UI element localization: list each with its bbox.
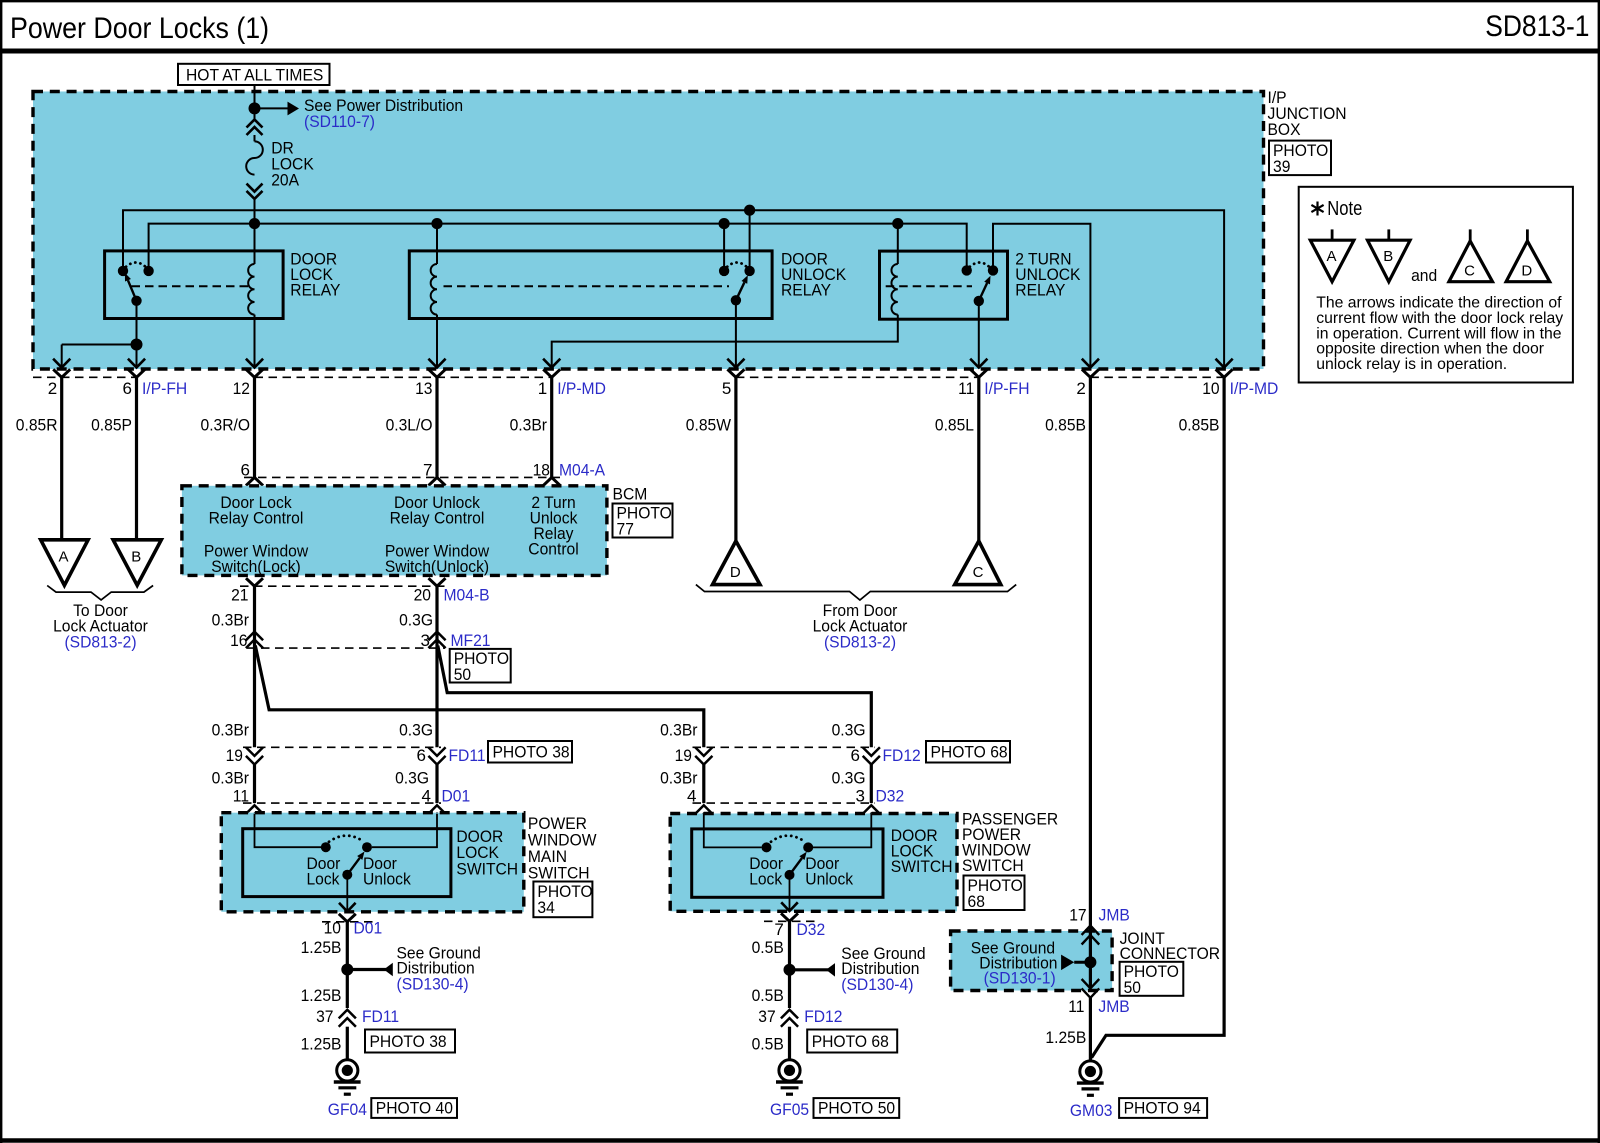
ground GF04 symbol — [337, 1060, 358, 1081]
wire 0.3Br: MF21 16 down to FD11 19 — [253, 648, 256, 747]
passenger switch common wire out — [789, 875, 791, 910]
POWER WINDOW MAIN SWITCH box — [221, 813, 524, 912]
K1 switch common contact — [131, 296, 141, 306]
svg-text:3: 3 — [421, 631, 430, 650]
svg-text:A: A — [1326, 248, 1336, 265]
brace: To Door Lock Actuator — [47, 586, 153, 600]
wire 0.3G: branch MF21 3 to passenger FD12 6 — [438, 646, 872, 748]
wire: battery feed from HOT AT ALL TIMES into fuse node — [254, 85, 256, 108]
wire: bus B2 (lower horizontal feed) — [149, 224, 967, 271]
passenger switch riser from pin 3 — [813, 814, 871, 848]
svg-text:11: 11 — [1068, 997, 1084, 1016]
note triangle A — [1331, 229, 1334, 241]
svg-text:RELAY: RELAY — [290, 281, 340, 300]
ground GF05 symbol — [779, 1060, 800, 1081]
svg-text:RELAY: RELAY — [1015, 281, 1065, 300]
svg-text:0.3G: 0.3G — [832, 721, 866, 740]
M04-B pin 21 — [246, 578, 263, 586]
passenger switch lock contact — [762, 842, 772, 852]
svg-text:SWITCH: SWITCH — [891, 857, 953, 876]
svg-text:6: 6 — [123, 379, 132, 398]
svg-text:(SD813-2): (SD813-2) — [824, 633, 896, 652]
svg-text:6: 6 — [241, 461, 250, 480]
driver switch lock contact — [321, 842, 331, 852]
connector FD12 pin 37 — [781, 1010, 798, 1019]
svg-text:18: 18 — [533, 461, 550, 480]
svg-text:D32: D32 — [876, 787, 905, 806]
svg-text:(SD110-7): (SD110-7) — [304, 112, 375, 131]
fuse DR LOCK 20A — [246, 141, 263, 174]
svg-text:I/P-FH: I/P-FH — [142, 379, 187, 398]
I/P box pin 13 — [428, 359, 445, 368]
svg-text:FD12: FD12 — [804, 1007, 842, 1026]
driver switch arm — [347, 858, 359, 875]
svg-text:5: 5 — [722, 379, 731, 398]
svg-text:JMB: JMB — [1098, 997, 1129, 1016]
MF21 pin 3 — [428, 632, 445, 641]
svg-text:Unlock: Unlock — [363, 870, 411, 889]
svg-text:10: 10 — [1202, 379, 1219, 398]
BCM component box — [182, 486, 607, 576]
wire: fuse output down to bus B2 — [254, 199, 256, 224]
connector M04-A dashed line — [244, 476, 560, 478]
branch to See Ground Distribution (passenger) — [790, 968, 829, 971]
K2 internal dashed link — [444, 285, 730, 287]
svg-text:SD813-1: SD813-1 — [1485, 10, 1589, 43]
triangle D (current direction, from door lock actuator) — [713, 541, 761, 585]
wire 0.3G: MF21 3 down to FD11 6 — [435, 648, 438, 747]
driver switch common wire out — [346, 875, 348, 911]
relay K2: DOOR UNLOCK RELAY box — [409, 251, 772, 319]
I/P box pin 10 connector I/P-MD — [1216, 359, 1233, 368]
svg-text:37: 37 — [316, 1007, 333, 1026]
D32 pin 4 — [695, 805, 712, 814]
connector D01 dashed line — [243, 802, 441, 804]
driver switch dotted arc — [329, 836, 364, 842]
K1 switch arm — [128, 280, 137, 301]
K3 switch left contact — [962, 265, 972, 275]
branch to See Ground Distribution (driver) — [347, 968, 386, 971]
svg-text:4: 4 — [687, 787, 696, 806]
svg-text:6: 6 — [851, 746, 860, 765]
wire: branch to See Power Distribution — [255, 107, 289, 109]
svg-text:16: 16 — [230, 631, 247, 650]
M04-A pin 6 — [246, 477, 263, 485]
svg-text:C: C — [1464, 263, 1475, 280]
wire segment to door switch connector — [702, 765, 705, 804]
svg-text:20: 20 — [414, 586, 431, 605]
svg-text:17: 17 — [1069, 906, 1086, 925]
wire 0.85B: pin 2 to JMB joint connector — [1089, 377, 1092, 926]
note triangle D — [1526, 229, 1529, 242]
connector line: I/P-MD pins 12,13,1 (dashed) — [255, 376, 552, 378]
photo ref box: PHOTO 40 — [371, 1098, 457, 1118]
connector line: I/P-FH pins 5,11 (dashed) — [736, 376, 979, 378]
I/P box pin 12 — [246, 359, 263, 368]
svg-text:PHOTO 94: PHOTO 94 — [1124, 1099, 1201, 1118]
I/P box pin 5 — [727, 359, 744, 368]
svg-text:D: D — [730, 564, 741, 581]
svg-text:50: 50 — [454, 665, 471, 684]
svg-text:B: B — [1383, 248, 1393, 265]
K1 dotted throw arc — [126, 263, 146, 267]
svg-text:10: 10 — [324, 919, 341, 938]
wire: bus B1 (upper horizontal feed) — [123, 210, 1224, 366]
photo ref box: PHOTO 68 — [926, 741, 1010, 763]
svg-text:and: and — [1411, 266, 1437, 285]
K1 switch left contact — [118, 266, 128, 276]
svg-text:RELAY: RELAY — [781, 281, 831, 300]
svg-text:(SD130-1): (SD130-1) — [984, 969, 1056, 988]
connector D32 pin 7 — [781, 913, 798, 921]
junction: fuse to bus B2 — [249, 218, 260, 229]
connector FD12 dashed line — [693, 746, 876, 748]
junction: unlock relay left contact on bus B2 — [719, 218, 730, 229]
svg-text:6: 6 — [417, 746, 426, 765]
junction: passenger ground distribution — [784, 964, 796, 976]
svg-text:I/P-FH: I/P-FH — [984, 379, 1029, 398]
driver switch unlock contact — [362, 842, 372, 852]
photo ref box: PHOTO 77 — [613, 504, 673, 538]
passenger switch dotted arc — [771, 836, 805, 842]
PASSENGER POWER WINDOW SWITCH box — [670, 814, 957, 912]
svg-text:D01: D01 — [442, 787, 471, 806]
K2 switch left contact — [719, 266, 729, 276]
K1 internal dashed link to coil — [132, 285, 251, 287]
svg-text:unlock relay is in operation.: unlock relay is in operation. — [1316, 356, 1507, 373]
node: power distribution junction — [249, 102, 261, 114]
svg-text:39: 39 — [1273, 157, 1290, 176]
off-page arrow: See Power Distribution — [288, 102, 300, 116]
K3 coil — [897, 224, 899, 264]
wire 0.85P: pin 6 to triangle B — [135, 377, 138, 540]
svg-text:77: 77 — [617, 520, 634, 539]
I/P box pin 6 connector I/P-FH — [128, 359, 145, 368]
junction: 2-turn relay coil on bus B2 — [892, 218, 903, 229]
svg-text:B: B — [131, 549, 141, 566]
photo ref box: PHOTO 94 — [1119, 1098, 1207, 1118]
svg-text:I/P-MD: I/P-MD — [1230, 379, 1279, 398]
triangle C — [955, 541, 1001, 585]
triangle B — [113, 540, 161, 586]
junction dot in joint connector — [1084, 956, 1096, 968]
svg-text:C: C — [973, 564, 984, 581]
svg-text:11: 11 — [233, 787, 249, 806]
svg-text:1.25B: 1.25B — [1045, 1028, 1086, 1047]
svg-text:GF05: GF05 — [770, 1100, 809, 1119]
D01 pin 11 — [246, 805, 263, 814]
svg-text:Note: Note — [1327, 198, 1362, 220]
note title — [1311, 202, 1323, 216]
svg-text:GF04: GF04 — [328, 1100, 367, 1119]
svg-text:PHOTO 38: PHOTO 38 — [493, 743, 570, 762]
joint connector branch arrow — [1061, 955, 1074, 971]
svg-text:FD11: FD11 — [449, 746, 486, 765]
FD12 pin 19 — [695, 747, 712, 756]
photo ref box: PHOTO 34 — [533, 882, 592, 918]
wire segment to door switch connector — [870, 765, 873, 804]
relay K1: DOOR LOCK RELAY box — [105, 251, 284, 319]
svg-text:0.85R: 0.85R — [16, 416, 58, 435]
svg-text:0.3G: 0.3G — [832, 769, 866, 788]
K2 contact risers — [723, 224, 725, 271]
svg-text:19: 19 — [675, 746, 692, 765]
svg-text:2: 2 — [48, 379, 57, 398]
svg-text:1.25B: 1.25B — [301, 938, 342, 957]
svg-text:Unlock: Unlock — [805, 870, 853, 889]
svg-text:0.5B: 0.5B — [752, 938, 784, 957]
svg-text:PHOTO 40: PHOTO 40 — [376, 1099, 453, 1118]
wire 0.5B: D32 7 to ground junction — [788, 921, 791, 1008]
svg-text:FD11: FD11 — [362, 1007, 399, 1026]
wire: K3 coil out to pin 1 column — [552, 315, 898, 367]
I/P box pin 1 connector I/P-MD — [543, 359, 560, 368]
MF21 pin 16 — [246, 632, 263, 641]
connector chevrons above fuse — [254, 108, 256, 120]
K3 internal dashed link — [886, 285, 972, 287]
svg-text:0.5B: 0.5B — [752, 986, 784, 1005]
K3 switch common contact — [974, 296, 984, 306]
svg-text:1: 1 — [538, 379, 547, 398]
wire 0.3Br: M04-B 21 to MF21 16 — [253, 586, 256, 648]
svg-text:0.85B: 0.85B — [1179, 416, 1220, 435]
connector line: I/P-FH pins 2,6 (dashed) — [33, 376, 137, 378]
svg-text:2: 2 — [1076, 379, 1085, 398]
connector JMB pin 11 — [1082, 979, 1100, 988]
K2 coil — [436, 224, 438, 264]
svg-text:Power Door Locks (1): Power Door Locks (1) — [10, 12, 269, 45]
junction: unlock relay coil on bus B2 — [431, 218, 442, 229]
photo ref box: PHOTO 68 — [964, 876, 1025, 911]
svg-text:0.3Br: 0.3Br — [212, 611, 250, 630]
wire 0.5B to ground GF05 — [788, 1027, 791, 1061]
wire: K3 common down to pin 11 — [978, 301, 980, 367]
passenger switch common contact — [785, 870, 795, 880]
svg-text:12: 12 — [233, 379, 250, 398]
svg-text:Relay Control: Relay Control — [390, 509, 485, 528]
I/P box pin 11 connector I/P-FH — [970, 359, 987, 368]
wire 0.3Br: pin 1 to BCM pin 18 — [550, 377, 553, 477]
K3 dotted throw arc — [970, 263, 989, 267]
svg-text:PHOTO 38: PHOTO 38 — [370, 1032, 447, 1051]
connector D32 dashed line — [693, 802, 876, 804]
passenger switch riser from pin 4 — [704, 814, 762, 848]
svg-text:0.3Br: 0.3Br — [660, 721, 698, 740]
brace: From Door Lock Actuator — [696, 585, 1016, 600]
wire segment to door switch connector — [253, 765, 256, 804]
wire 0.3G: M04-B 20 to MF21 3 — [435, 586, 438, 648]
svg-text:A: A — [58, 549, 68, 566]
D32 pin 3 — [863, 805, 880, 814]
wire 0.85W: pin 5 to triangle D — [734, 377, 737, 541]
wire 0.85R: pin 2 to triangle A — [60, 377, 63, 540]
svg-text:Lock: Lock — [749, 870, 782, 889]
wire segment to door switch connector — [435, 765, 438, 804]
connector FD11 pin 37 — [339, 1010, 356, 1019]
svg-text:Lock: Lock — [307, 870, 340, 889]
svg-text:CONNECTOR: CONNECTOR — [1120, 944, 1221, 963]
svg-text:D32: D32 — [797, 920, 826, 939]
svg-text:0.3Br: 0.3Br — [212, 721, 250, 740]
wire: K3 right contact to pin 2 column — [993, 224, 1090, 367]
note triangle C — [1469, 229, 1472, 242]
photo ref box: PHOTO 50 — [1120, 962, 1184, 996]
svg-text:HOT AT ALL TIMES: HOT AT ALL TIMES — [186, 66, 323, 85]
svg-text:7: 7 — [423, 461, 432, 480]
svg-text:34: 34 — [537, 898, 554, 917]
svg-text:0.5B: 0.5B — [752, 1035, 784, 1054]
I/P box pin 2 — [1082, 359, 1099, 368]
wire 0.3Br: branch MF21 16 to passenger FD12 19 — [255, 646, 704, 748]
M04-B pin 20 — [429, 578, 446, 586]
svg-text:(SD130-4): (SD130-4) — [841, 975, 913, 994]
FD11 pin 19 — [246, 747, 263, 756]
svg-text:Switch(Unlock): Switch(Unlock) — [385, 557, 489, 576]
svg-text:7: 7 — [774, 920, 783, 939]
photo ref box: PHOTO 50 — [450, 649, 511, 683]
driver switch riser from pin 4 — [372, 814, 437, 848]
photo ref box: PHOTO 38 — [365, 1030, 455, 1053]
svg-text:GM03: GM03 — [1070, 1101, 1113, 1120]
K3 switch right contact — [988, 265, 998, 275]
svg-text:BOX: BOX — [1268, 120, 1301, 139]
connector D01 pin 10 — [339, 914, 356, 922]
ground GM03 symbol — [1080, 1061, 1101, 1082]
passenger switch unlock contact — [803, 842, 813, 852]
svg-text:Control: Control — [528, 540, 578, 559]
svg-text:PHOTO 68: PHOTO 68 — [931, 743, 1008, 762]
wire: K2 common down to pin 5 — [735, 300, 737, 366]
svg-text:FD12: FD12 — [883, 746, 921, 765]
svg-text:0.3R/O: 0.3R/O — [201, 416, 251, 435]
svg-text:MF21: MF21 — [451, 631, 491, 650]
svg-text:M04-B: M04-B — [444, 586, 490, 605]
note box — [1299, 187, 1573, 383]
svg-text:11: 11 — [958, 379, 974, 398]
svg-text:37: 37 — [758, 1007, 775, 1026]
K2 switch right contact — [744, 266, 754, 276]
wire 0.85B: pin 10 down right side — [1092, 377, 1225, 1058]
svg-text:0.3G: 0.3G — [395, 769, 429, 788]
connector chevrons below fuse — [247, 184, 263, 192]
junction: unlock relay right contact on bus B1 — [744, 205, 755, 216]
wire 0.3L/O: pin 13 to BCM pin 7 — [435, 377, 438, 477]
svg-text:1.25B: 1.25B — [301, 1035, 342, 1054]
svg-text:BCM: BCM — [613, 485, 648, 504]
FD11 pin 6 — [428, 747, 445, 756]
svg-text:4: 4 — [422, 787, 431, 806]
M04-A pin 18 — [543, 477, 560, 485]
connector line: I/P-MD pins 2,10 (dashed) — [1090, 376, 1224, 378]
svg-text:0.3Br: 0.3Br — [212, 769, 250, 788]
svg-text:1.25B: 1.25B — [301, 986, 342, 1005]
photo ref box: PHOTO 39 — [1269, 141, 1331, 176]
K2 dotted throw arc — [727, 263, 746, 267]
svg-text:0.3L/O: 0.3L/O — [386, 416, 433, 435]
photo ref box: PHOTO 50 — [814, 1098, 900, 1118]
passenger switch arm — [790, 858, 802, 875]
svg-text:0.3G: 0.3G — [399, 721, 433, 740]
svg-text:0.85W: 0.85W — [686, 416, 731, 435]
power source label: HOT AT ALL TIMES — [178, 64, 330, 85]
connector JMB pin 17 — [1082, 926, 1100, 935]
connector FD11 dashed line — [243, 746, 441, 748]
relay K3: 2 TURN UNLOCK RELAY box — [880, 251, 1008, 319]
svg-text:0.85B: 0.85B — [1045, 416, 1086, 435]
svg-text:D01: D01 — [354, 919, 383, 938]
I/P box pin 2 — [53, 359, 70, 368]
photo ref box: PHOTO 38 — [488, 741, 572, 763]
svg-text:SWITCH: SWITCH — [962, 856, 1024, 875]
svg-text:0.3Br: 0.3Br — [510, 416, 548, 435]
FD12 pin 6 — [863, 747, 880, 756]
driver switch riser from pin 11 — [255, 814, 322, 848]
svg-text:(SD130-4): (SD130-4) — [397, 975, 469, 994]
note triangle B — [1387, 229, 1390, 241]
triangle A (current direction, to door lock actuator) — [41, 540, 88, 586]
svg-text:I/P-MD: I/P-MD — [557, 379, 606, 398]
svg-text:0.85P: 0.85P — [91, 416, 132, 435]
svg-text:68: 68 — [968, 892, 985, 911]
svg-text:13: 13 — [415, 379, 432, 398]
svg-text:0.3G: 0.3G — [399, 611, 433, 630]
I/P JUNCTION BOX (component box) — [33, 92, 1264, 370]
JOINT CONNECTOR box — [951, 931, 1113, 991]
wire 0.3R/O: pin 12 to BCM pin 6 — [253, 377, 256, 477]
svg-text:19: 19 — [226, 746, 243, 765]
connector M04-B dashed line — [240, 585, 445, 587]
svg-text:50: 50 — [1124, 978, 1141, 997]
wire through joint connector — [1089, 926, 1092, 988]
svg-text:Switch(Lock): Switch(Lock) — [211, 557, 301, 576]
svg-text:PHOTO 68: PHOTO 68 — [812, 1032, 889, 1051]
DOOR LOCK SWITCH inner box (driver) — [243, 829, 451, 897]
D01 pin 4 — [428, 805, 445, 814]
K1 coil — [254, 224, 256, 264]
driver switch common contact — [342, 870, 352, 880]
svg-text:0.3Br: 0.3Br — [660, 769, 698, 788]
svg-text:3: 3 — [856, 787, 865, 806]
K1 switch right contact — [143, 266, 153, 276]
svg-text:21: 21 — [231, 586, 248, 605]
wire: K1 common down with branch to pin 2 — [136, 301, 138, 345]
svg-text:PHOTO 50: PHOTO 50 — [818, 1099, 895, 1118]
K3 switch arm — [979, 283, 987, 301]
svg-text:SWITCH: SWITCH — [456, 860, 518, 879]
svg-text:M04-A: M04-A — [559, 461, 606, 480]
junction: driver ground distribution — [341, 964, 353, 976]
K2 switch arm — [736, 282, 744, 300]
svg-text:JMB: JMB — [1099, 906, 1130, 925]
junction: K1 common branch — [131, 339, 143, 351]
wire 1.25B to ground GM03 — [1089, 998, 1092, 1062]
M04-A pin 7 — [429, 477, 446, 485]
photo ref box: PHOTO 68 — [807, 1030, 897, 1053]
svg-text:D: D — [1521, 263, 1532, 280]
connector MF21 dashed line — [247, 647, 445, 649]
svg-text:0.85L: 0.85L — [935, 416, 974, 435]
DOOR LOCK SWITCH inner box (passenger) — [692, 829, 883, 897]
wire 1.25B: D01 10 to ground junction — [346, 922, 349, 1008]
wire 0.85L: pin 11 to triangle C — [977, 377, 980, 541]
K2 switch common contact — [731, 295, 741, 305]
wire 1.25B to ground GF04 — [346, 1027, 349, 1061]
svg-text:SWITCH: SWITCH — [528, 864, 590, 883]
svg-text:Relay Control: Relay Control — [209, 509, 304, 528]
svg-text:(SD813-2): (SD813-2) — [64, 633, 136, 652]
svg-text:20A: 20A — [271, 171, 299, 190]
